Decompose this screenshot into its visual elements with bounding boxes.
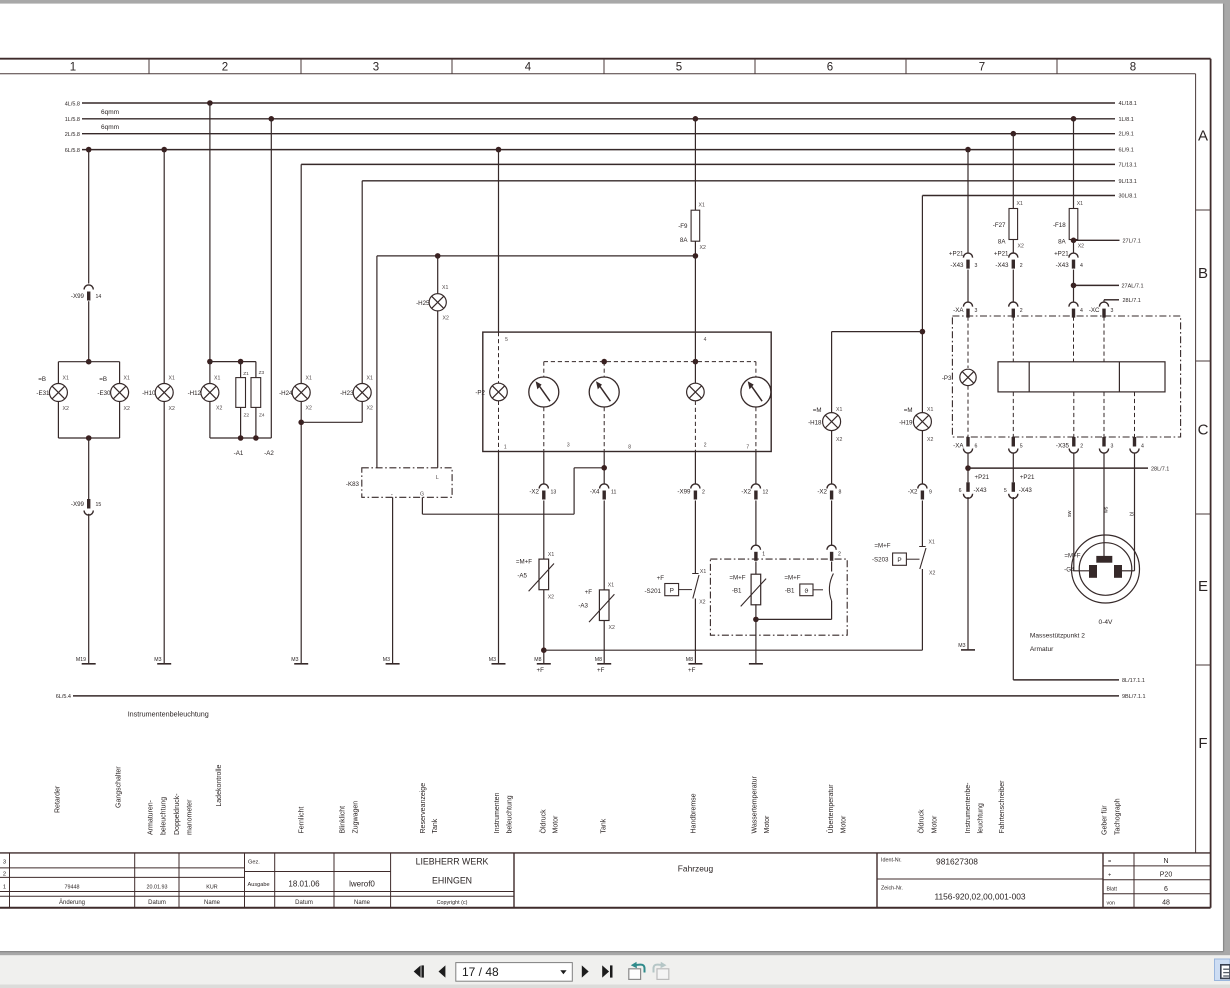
svg-text:X1: X1 bbox=[1077, 201, 1083, 207]
junction dots on buses bbox=[207, 100, 213, 106]
connector X99 pin 15 bbox=[87, 499, 90, 509]
lamp H25 bbox=[429, 294, 446, 311]
svg-text:=: = bbox=[1108, 859, 1111, 865]
svg-text:B: B bbox=[1198, 265, 1208, 282]
svg-text:M3: M3 bbox=[383, 657, 390, 663]
wire F9 to junction bbox=[694, 241, 696, 256]
wire K83 minus pin to ground bbox=[392, 497, 394, 664]
connector X43 pin 2 bbox=[1009, 253, 1018, 258]
svg-text:X2: X2 bbox=[1078, 244, 1084, 250]
svg-text:5: 5 bbox=[1020, 444, 1023, 450]
svg-text:=B: =B bbox=[38, 376, 46, 383]
wire pin7 to X2.12 bbox=[755, 452, 757, 484]
svg-text:KUR: KUR bbox=[206, 884, 217, 890]
svg-text:3: 3 bbox=[3, 860, 6, 866]
svg-text:beleuchtung: beleuchtung bbox=[507, 795, 514, 833]
net 27AL/7.1 stub bbox=[1074, 284, 1120, 286]
svg-text:X2: X2 bbox=[927, 437, 933, 443]
lamp H12 bbox=[201, 384, 219, 402]
wire H19 to X2.9 bbox=[921, 431, 923, 484]
svg-text:-E31: -E31 bbox=[36, 390, 50, 397]
svg-text:Retarder: Retarder bbox=[55, 785, 62, 813]
svg-text:Fahrzeug: Fahrzeug bbox=[678, 864, 714, 874]
svg-text:4: 4 bbox=[1141, 444, 1144, 450]
svg-text:Blatt: Blatt bbox=[1107, 887, 1118, 893]
wire 1L to fuse F18 bbox=[1073, 119, 1075, 209]
connector X35 pin 2 bbox=[1072, 437, 1075, 447]
svg-text:Motor: Motor bbox=[841, 815, 848, 834]
lamp P3 bbox=[960, 369, 976, 385]
svg-text:+P21: +P21 bbox=[994, 250, 1009, 257]
svg-text:-P2: -P2 bbox=[475, 390, 485, 397]
svg-text:-X43: -X43 bbox=[1056, 262, 1070, 269]
svg-text:Übertemperatur: Übertemperatur bbox=[827, 784, 835, 834]
bus 4L/5.8 - 4L/18.1 bbox=[82, 102, 1115, 104]
svg-text:-X2: -X2 bbox=[741, 489, 751, 496]
wire 9L to H23 bbox=[361, 181, 363, 384]
dashed wire to lamp P2 bbox=[498, 332, 500, 384]
svg-text:6qmm: 6qmm bbox=[101, 109, 119, 116]
lamp E30 bbox=[111, 384, 129, 402]
wire junction to H25 bbox=[437, 256, 439, 294]
ground M19 bbox=[82, 663, 96, 665]
svg-text:-H24: -H24 bbox=[279, 390, 293, 397]
svg-text:4: 4 bbox=[704, 337, 707, 343]
svg-text:2L/9.1: 2L/9.1 bbox=[1119, 132, 1134, 138]
svg-text:-X35: -X35 bbox=[1056, 443, 1070, 450]
svg-text:ws: ws bbox=[1104, 506, 1110, 513]
svg-text:P20: P20 bbox=[1160, 872, 1173, 879]
svg-text:X2: X2 bbox=[169, 406, 175, 412]
svg-text:M19: M19 bbox=[76, 657, 86, 663]
connector XA pin 4 bbox=[1069, 302, 1078, 307]
connector X2 pin 12 bbox=[751, 484, 760, 489]
wire X99.15 to ground bbox=[88, 514, 90, 664]
svg-text:7: 7 bbox=[979, 62, 985, 74]
svg-text:-XA: -XA bbox=[953, 443, 964, 450]
sensor A5 (variable resistor) bbox=[539, 559, 549, 590]
svg-text:E: E bbox=[1198, 578, 1208, 595]
connector block in enclosure bbox=[998, 362, 1165, 392]
connector X2 pin 8 bbox=[827, 484, 836, 489]
svg-text:1: 1 bbox=[762, 551, 765, 557]
svg-text:-E30: -E30 bbox=[97, 390, 111, 397]
sensor A3 (variable resistor) bbox=[599, 590, 609, 621]
resistor Z1/Z2 (A1) bbox=[236, 378, 246, 408]
svg-text:X1: X1 bbox=[214, 376, 220, 382]
svg-text:3: 3 bbox=[975, 308, 978, 314]
svg-text:X1: X1 bbox=[124, 376, 130, 382]
svg-text:manometer: manometer bbox=[187, 799, 194, 835]
svg-text:3: 3 bbox=[1111, 444, 1114, 450]
lamp E31 bbox=[49, 384, 67, 402]
dashed wire lamp to pin 2 bbox=[694, 401, 696, 452]
svg-text:bl: bl bbox=[1130, 512, 1136, 516]
sensor B1 NTC bbox=[755, 562, 757, 575]
connector X4 pin 11 bbox=[600, 484, 609, 489]
svg-text:X1: X1 bbox=[367, 376, 373, 382]
fuse F27 8A bbox=[1009, 209, 1018, 240]
svg-text:-B1: -B1 bbox=[732, 588, 742, 595]
svg-text:P: P bbox=[897, 557, 901, 564]
bus 9L/13.1 bbox=[362, 180, 1115, 182]
svg-text:2: 2 bbox=[1020, 308, 1023, 314]
wire X43.2 to XA.2 bbox=[1012, 270, 1014, 302]
wire X35.3 to G4 top pin (ws) bbox=[1103, 454, 1105, 557]
connector XC pin 3 bbox=[1099, 302, 1108, 307]
svg-text:Fernlicht: Fernlicht bbox=[299, 807, 306, 834]
resistor bridge bottom bar bbox=[240, 407, 242, 438]
drawing frame inner border bbox=[0, 73, 1196, 75]
svg-text:-X4: -X4 bbox=[590, 489, 600, 496]
svg-text:X2: X2 bbox=[548, 595, 554, 601]
svg-text:X1: X1 bbox=[608, 583, 614, 589]
svg-text:Datum: Datum bbox=[148, 900, 166, 906]
dashed wire XC.3 into block bbox=[1103, 317, 1105, 362]
svg-text:2L/5.8: 2L/5.8 bbox=[65, 132, 80, 138]
dashed stem block to XA.5 bbox=[1012, 392, 1014, 437]
svg-text:Massestützpunkt 2: Massestützpunkt 2 bbox=[1030, 632, 1085, 639]
wire 6L to P2 pin 5 bbox=[498, 150, 500, 333]
svg-text:Instrumentenbeleuchtung: Instrumentenbeleuchtung bbox=[128, 710, 209, 719]
wire S203 to common ground link bbox=[921, 569, 923, 650]
svg-text:=M+F: =M+F bbox=[874, 543, 890, 550]
bus 6L/5.8 - 6L/9.1 bbox=[82, 149, 1115, 151]
wire X2.9 to S203 bbox=[921, 501, 923, 547]
svg-text:Blinklicht: Blinklicht bbox=[340, 806, 347, 834]
svg-text:Wassertemperatur: Wassertemperatur bbox=[752, 776, 759, 834]
wire H24 to ground bbox=[300, 402, 302, 664]
svg-text:F: F bbox=[1198, 735, 1207, 752]
svg-text:X1: X1 bbox=[548, 552, 554, 558]
svg-text:-XA: -XA bbox=[953, 307, 964, 314]
svg-text:X2: X2 bbox=[1018, 244, 1024, 250]
bus 2L/5.8 - 2L/9.1 bbox=[82, 133, 1115, 135]
wire feed to K83 left pin bbox=[376, 256, 378, 468]
wire X99.14 to lamp bridge bbox=[88, 301, 90, 362]
svg-text:1: 1 bbox=[504, 445, 507, 451]
svg-text:13: 13 bbox=[551, 490, 557, 496]
ground M8+F under A3 bbox=[597, 663, 611, 665]
drawing frame outer border bbox=[0, 58, 1211, 60]
svg-text:6: 6 bbox=[1164, 886, 1168, 893]
svg-text:Armaturen-: Armaturen- bbox=[148, 799, 155, 835]
svg-text:=M+F: =M+F bbox=[784, 575, 800, 582]
svg-text:X1: X1 bbox=[700, 569, 706, 575]
previous view button bbox=[629, 969, 641, 980]
connector X43 pin 3 bbox=[963, 253, 972, 258]
svg-text:15: 15 bbox=[96, 502, 102, 508]
wire X43.5 to net 8L/17.1.1 bbox=[1012, 497, 1014, 680]
svg-text:-S203: -S203 bbox=[872, 557, 889, 564]
svg-text:2: 2 bbox=[702, 490, 705, 496]
dashed wire XA.4 into block bbox=[1073, 317, 1075, 362]
svg-text:2: 2 bbox=[3, 872, 6, 878]
lamp H10 bbox=[155, 384, 173, 402]
wire X43.3 to XA.3 bbox=[967, 270, 969, 302]
wire 30L down bbox=[921, 196, 923, 413]
wire H18 branch bbox=[832, 331, 923, 333]
svg-text:-X2: -X2 bbox=[908, 489, 918, 496]
ground M8+F under A5 bbox=[537, 663, 551, 665]
toolbar background bbox=[0, 955, 1230, 984]
wire H25 to K83 pin L bbox=[437, 311, 439, 468]
svg-text:27AL/7.1: 27AL/7.1 bbox=[1122, 284, 1144, 290]
svg-text:-F27: -F27 bbox=[993, 222, 1006, 229]
svg-text:X2: X2 bbox=[306, 406, 312, 412]
svg-text:4L/18.1: 4L/18.1 bbox=[1119, 101, 1137, 107]
wire dot to lamp H12 bbox=[209, 362, 211, 384]
svg-text:X1: X1 bbox=[442, 285, 448, 291]
svg-text:1: 1 bbox=[70, 62, 76, 74]
gauge fuel (pin 3) bbox=[529, 377, 559, 407]
fuse F9 8A bbox=[691, 210, 700, 241]
svg-text:sw: sw bbox=[1067, 510, 1073, 517]
svg-text:4: 4 bbox=[1080, 308, 1083, 314]
svg-text:lwerof0: lwerof0 bbox=[349, 880, 375, 889]
wire bridge to X99.15 bbox=[88, 438, 90, 499]
svg-text:8A: 8A bbox=[680, 237, 688, 244]
svg-text:-P3: -P3 bbox=[942, 375, 952, 382]
gauge temperature (pin 7) bbox=[741, 377, 771, 407]
svg-text:X1: X1 bbox=[63, 376, 69, 382]
svg-text:-A1: -A1 bbox=[234, 450, 244, 457]
wire to E31 bbox=[57, 362, 59, 384]
bus 1L/5.8 - 1L/8.1 bbox=[82, 118, 1115, 120]
svg-text:Armatur: Armatur bbox=[1030, 646, 1054, 653]
svg-text:8L/17.1.1: 8L/17.1.1 bbox=[1122, 678, 1145, 684]
ground M3 under K83 bbox=[386, 663, 400, 665]
svg-text:-H25: -H25 bbox=[416, 300, 430, 307]
bus 30L/8.1 bbox=[922, 195, 1115, 197]
connector XA pin 3 bbox=[963, 302, 972, 307]
svg-text:+: + bbox=[1108, 873, 1111, 879]
svg-text:+F: +F bbox=[657, 575, 665, 582]
svg-text:Öldruck: Öldruck bbox=[540, 809, 548, 834]
next view button (disabled) bbox=[657, 969, 669, 980]
svg-text:X2: X2 bbox=[63, 406, 69, 412]
svg-text:6L/9.1: 6L/9.1 bbox=[1119, 148, 1134, 154]
svg-text:Reserveanzeige: Reserveanzeige bbox=[420, 783, 427, 834]
svg-text:+F: +F bbox=[585, 589, 593, 596]
svg-text:-S201: -S201 bbox=[644, 588, 661, 595]
svg-text:M8: M8 bbox=[534, 657, 541, 663]
wire 1L to resistor bridge bbox=[270, 119, 272, 438]
wire A5 to ground bbox=[543, 590, 545, 664]
wire B1 to ground bbox=[755, 619, 757, 663]
wire 6L to X99.14 bbox=[88, 150, 90, 284]
wire X4.11 to sensor A3 bbox=[603, 501, 605, 590]
lamp bridge top bar bbox=[58, 361, 119, 363]
wire F18 to X43.4 bbox=[1073, 240, 1075, 253]
instrument panel enclosure box bbox=[952, 316, 1180, 437]
lamp fuel-reserve inside box bbox=[687, 383, 705, 401]
svg-text:6: 6 bbox=[827, 62, 833, 74]
svg-text:-H23: -H23 bbox=[340, 390, 354, 397]
svg-text:M8: M8 bbox=[595, 657, 602, 663]
svg-text:=M: =M bbox=[813, 407, 822, 414]
wire S201 to ground bbox=[694, 599, 696, 664]
lamp bridge bottom bar bbox=[57, 402, 59, 439]
connector X99 pin 2 bbox=[691, 484, 700, 489]
svg-text:-X99: -X99 bbox=[71, 293, 85, 300]
wire 4L to H12 bbox=[209, 103, 211, 362]
svg-text:X2: X2 bbox=[124, 406, 130, 412]
svg-text:6L/5.8: 6L/5.8 bbox=[65, 148, 80, 154]
svg-text:EHINGEN: EHINGEN bbox=[432, 876, 472, 886]
revision rows bbox=[0, 867, 245, 869]
svg-text:-X43: -X43 bbox=[995, 262, 1009, 269]
wire 2L to fuse F27 bbox=[1012, 134, 1014, 209]
svg-text:N: N bbox=[1163, 858, 1168, 865]
svg-text:4L/5.8: 4L/5.8 bbox=[65, 101, 80, 107]
net 28L/7.1 feed to XC.3 bbox=[1104, 299, 1119, 301]
svg-text:Tachograph: Tachograph bbox=[1115, 798, 1122, 835]
svg-text:Ident-Nr.: Ident-Nr. bbox=[881, 858, 902, 864]
gauge stem 1 bbox=[543, 362, 545, 377]
svg-text:Z4: Z4 bbox=[259, 413, 265, 419]
net 27L/7.1 stub bbox=[1074, 239, 1120, 241]
svg-text:Zeich-Nr.: Zeich-Nr. bbox=[881, 886, 903, 892]
connector X43 pin 5 bbox=[1012, 454, 1014, 483]
svg-text:1156-920,02,00,001-003: 1156-920,02,00,001-003 bbox=[934, 892, 1025, 902]
svg-text:5: 5 bbox=[1004, 488, 1007, 494]
svg-text:=M+F: =M+F bbox=[516, 559, 532, 566]
svg-text:2: 2 bbox=[222, 62, 228, 74]
svg-text:79448: 79448 bbox=[65, 884, 80, 890]
wire H10 to ground bbox=[163, 402, 165, 664]
ground M8+F under S201 bbox=[688, 663, 702, 665]
tachograph sender G4 body bbox=[1072, 535, 1140, 603]
svg-text:7L/13.1: 7L/13.1 bbox=[1119, 162, 1137, 168]
svg-text:-H18: -H18 bbox=[808, 419, 822, 426]
dashed stem block to X35.2 bbox=[1073, 392, 1075, 437]
svg-text:Datum: Datum bbox=[295, 900, 313, 906]
svg-text:-X99: -X99 bbox=[677, 489, 691, 496]
svg-text:6: 6 bbox=[975, 444, 978, 450]
svg-text:Fahrtenschreiber: Fahrtenschreiber bbox=[999, 780, 1006, 834]
svg-text:=M+F: =M+F bbox=[729, 575, 745, 582]
gauge oil pressure (pin 8) bbox=[589, 377, 619, 407]
svg-text:-H12: -H12 bbox=[188, 390, 202, 397]
svg-text:ϑ: ϑ bbox=[804, 588, 808, 595]
svg-text:11: 11 bbox=[611, 490, 616, 496]
fuse F18 8A bbox=[1069, 209, 1078, 240]
svg-text:28L/7.1: 28L/7.1 bbox=[1123, 298, 1141, 304]
lamp H18 bbox=[823, 413, 841, 431]
svg-text:1L/8.1: 1L/8.1 bbox=[1119, 117, 1134, 123]
svg-text:+P21: +P21 bbox=[1020, 474, 1035, 481]
connector B1 pin 2 bbox=[827, 545, 836, 550]
connector XA pin 5 bbox=[1012, 437, 1015, 447]
svg-text:P: P bbox=[670, 588, 674, 595]
svg-text:X1: X1 bbox=[306, 376, 312, 382]
svg-text:8A: 8A bbox=[1058, 239, 1066, 246]
svg-text:-X43: -X43 bbox=[974, 487, 988, 494]
svg-text:X1: X1 bbox=[836, 407, 842, 413]
svg-text:+F: +F bbox=[597, 667, 605, 674]
svg-text:-X2: -X2 bbox=[529, 489, 539, 496]
svg-text:Z3: Z3 bbox=[259, 370, 265, 376]
svg-text:28L/7.1: 28L/7.1 bbox=[1151, 466, 1169, 472]
svg-text:+P21: +P21 bbox=[949, 250, 964, 257]
ground M3 right bbox=[961, 649, 975, 651]
wire X43.6 to ground M3 bbox=[967, 497, 969, 650]
common ground link wire bbox=[544, 649, 923, 651]
dashed wire XA.3 to P3 bbox=[967, 317, 969, 369]
svg-text:-G4: -G4 bbox=[1064, 566, 1075, 573]
svg-text:Geber für: Geber für bbox=[1102, 805, 1109, 835]
svg-text:-H19: -H19 bbox=[899, 419, 913, 426]
wire to E30 bbox=[119, 362, 121, 384]
nav next page button bbox=[582, 965, 589, 977]
svg-text:+F: +F bbox=[688, 667, 696, 674]
svg-text:Zugwagen: Zugwagen bbox=[353, 801, 360, 834]
sheet info cells bbox=[1103, 865, 1211, 867]
lamp H24 bbox=[292, 384, 310, 402]
svg-text:Motor: Motor bbox=[553, 815, 560, 834]
svg-text:Instrumenten: Instrumenten bbox=[494, 793, 501, 834]
svg-text:-H10: -H10 bbox=[142, 390, 156, 397]
svg-text:9: 9 bbox=[929, 490, 932, 496]
dashed wire P2 to pin 1 bbox=[498, 401, 500, 452]
svg-text:8: 8 bbox=[839, 490, 842, 496]
svg-text:+F: +F bbox=[537, 667, 545, 674]
lamp H23 bbox=[353, 384, 371, 402]
lamp H19 bbox=[913, 413, 931, 431]
instrument box internal dashed bus bbox=[544, 361, 756, 363]
gauge stem 3 bbox=[755, 362, 757, 377]
connector X2 pin 13 bbox=[539, 484, 548, 489]
svg-text:3: 3 bbox=[567, 443, 570, 449]
svg-text:X2: X2 bbox=[700, 245, 706, 251]
svg-text:LIEBHERR WERK: LIEBHERR WERK bbox=[416, 857, 489, 867]
svg-text:Motor: Motor bbox=[932, 815, 939, 834]
svg-text:Doppeldruck-: Doppeldruck- bbox=[174, 793, 181, 835]
svg-text:X1: X1 bbox=[699, 203, 705, 209]
nav last page button bbox=[602, 965, 609, 977]
nav first page button bbox=[414, 965, 421, 977]
svg-text:6qmm: 6qmm bbox=[101, 124, 119, 131]
svg-text:3: 3 bbox=[1111, 308, 1114, 314]
resistor bridge top bar bbox=[210, 361, 256, 363]
svg-text:1: 1 bbox=[3, 885, 6, 891]
ground M3 under P2 bbox=[492, 663, 506, 665]
svg-text:Änderung: Änderung bbox=[59, 899, 85, 906]
wire H23 to H24 link bbox=[361, 402, 363, 423]
svg-text:4: 4 bbox=[525, 62, 532, 74]
svg-text:981627308: 981627308 bbox=[936, 857, 978, 867]
svg-text:Öldruck: Öldruck bbox=[918, 809, 926, 834]
svg-text:X1: X1 bbox=[1017, 201, 1023, 207]
ground M3 under H24 bbox=[294, 663, 308, 665]
ground M3 under H10 bbox=[157, 663, 171, 665]
wire X43.4 to XA.4 bbox=[1073, 270, 1075, 302]
svg-text:Handbremse: Handbremse bbox=[691, 793, 698, 833]
wire H18 to X2.8 bbox=[831, 431, 833, 484]
connector X2 pin 9 bbox=[918, 484, 927, 489]
svg-text:M8: M8 bbox=[686, 657, 693, 663]
wire A3 to ground bbox=[603, 621, 605, 664]
svg-text:8: 8 bbox=[628, 445, 631, 451]
svg-text:von: von bbox=[1107, 900, 1115, 906]
wire F27 to X43.2 bbox=[1012, 240, 1014, 254]
wire X99.2 to S201 bbox=[694, 501, 696, 574]
svg-text:-B1: -B1 bbox=[785, 588, 795, 595]
svg-text:X1: X1 bbox=[929, 539, 935, 545]
svg-text:48: 48 bbox=[1162, 900, 1170, 907]
svg-text:Z1: Z1 bbox=[243, 371, 249, 377]
